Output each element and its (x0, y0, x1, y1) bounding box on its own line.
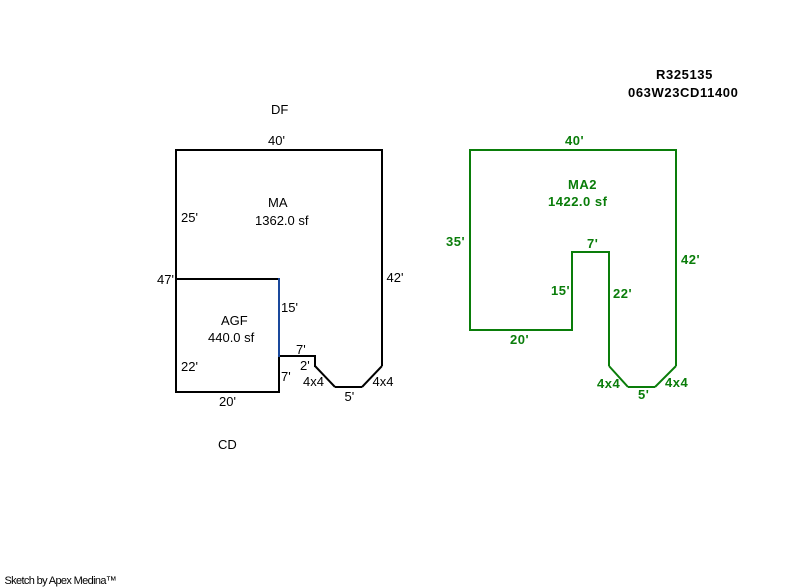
label MA (268, 196, 288, 209)
label MA2 area 1422.0 sf (548, 195, 607, 208)
label 25' (181, 211, 198, 224)
label 40' MA2 (565, 134, 584, 147)
label DF (271, 103, 288, 116)
label AGF area 440.0 sf (208, 331, 254, 344)
wall 35' left (MA2) (469, 149, 471, 331)
interior wall AGF top (176, 278, 280, 280)
wall 47' left (MA+AGF) (175, 149, 177, 393)
label 22' (181, 360, 198, 373)
wall 2' (MA) (314, 355, 316, 367)
wall 7' horizontal (MA) (278, 355, 316, 357)
wall 15' (MA2) (571, 251, 573, 331)
label 22' MA2 (613, 287, 632, 300)
wall 4x4 right diagonal (MA) (362, 366, 382, 387)
label 42' MA (387, 271, 404, 284)
label 5' MA2 (638, 388, 649, 401)
label 4x4 left MA (303, 375, 324, 388)
wall 22' (MA2) (608, 251, 610, 366)
wall 4x4 left diagonal (MA2) (609, 366, 628, 387)
wall 5' bottom (MA2) (628, 386, 655, 388)
label 35' (446, 235, 465, 248)
label 4x4 left MA2 (597, 377, 620, 390)
label 2' (300, 359, 310, 372)
wall 5' bottom (MA) (335, 386, 362, 388)
wall 4x4 left diagonal (MA) (315, 366, 335, 387)
wall 4x4 right diagonal (MA2) (655, 366, 676, 387)
label 47' (157, 273, 174, 286)
label 5' MA (345, 390, 355, 403)
wall 20' bottom (MA2) (469, 329, 573, 331)
label parcel id 063W23CD11400 (628, 86, 738, 99)
label sketch credit (5, 576, 117, 587)
wall 20' bottom (AGF) (175, 391, 280, 393)
label 20' MA2 (510, 333, 529, 346)
wall 42' right (MA2) (675, 149, 677, 366)
label 15' MA2 (551, 284, 570, 297)
label AGF (221, 314, 248, 327)
wall 42' right (MA) (381, 149, 383, 366)
label 42' MA2 (681, 253, 700, 266)
label 40' MA top (268, 134, 285, 147)
label 7' MA2 (587, 237, 598, 250)
wall 40' top (MA2) (469, 149, 677, 151)
label CD (218, 438, 237, 451)
label parcel id R325135 (656, 68, 713, 81)
label 15' MA (281, 301, 298, 314)
wall 40' top (MA) (175, 149, 383, 151)
label 20' AGF (219, 395, 236, 408)
label 7' upper MA (296, 343, 306, 356)
wall 15' blue (AGF right / MA boundary) (278, 278, 280, 357)
wall 7' vertical (AGF right) (278, 356, 280, 393)
label 7' lower AGF (281, 370, 291, 383)
label 4x4 right MA (373, 375, 394, 388)
label MA2 (568, 178, 597, 191)
wall 7' (MA2) (571, 251, 610, 253)
label 4x4 right MA2 (665, 376, 688, 389)
label MA area 1362.0 sf (255, 214, 309, 227)
